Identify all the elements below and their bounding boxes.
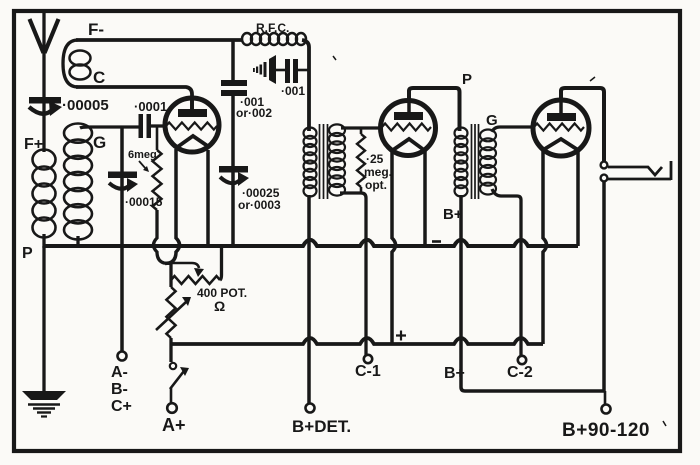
terminal C-1 xyxy=(364,355,372,363)
junction filament return xyxy=(169,264,172,288)
svg-text:C: C xyxy=(93,68,105,87)
wire T2 primary bottom to B+ xyxy=(461,195,604,391)
wire F- tap down to capacitor xyxy=(231,40,235,80)
svg-text:P: P xyxy=(22,245,33,262)
svg-text:Ω: Ω xyxy=(214,298,225,314)
filament leads V1 xyxy=(165,149,180,264)
svg-text:G: G xyxy=(93,133,106,152)
svg-text:·00005: ·00005 xyxy=(62,97,109,114)
jack sleeve line xyxy=(608,178,671,181)
antenna xyxy=(30,12,59,93)
wire bus to ground xyxy=(42,246,45,391)
tube V2 xyxy=(381,101,436,156)
svg-text:·0001: ·0001 xyxy=(134,99,167,114)
tube V3 xyxy=(533,100,589,156)
wire rheostat to switch xyxy=(169,338,172,362)
wire T1 secondary bottom xyxy=(340,193,366,355)
svg-text:C+: C+ xyxy=(111,398,132,415)
terminal B+DET xyxy=(306,404,315,413)
minus mark xyxy=(432,240,441,243)
filament leads V2 xyxy=(392,151,396,344)
lower bus wire (A-) xyxy=(171,338,543,344)
wire V3 plate to jack xyxy=(561,88,604,161)
svg-text:opt.: opt. xyxy=(365,178,387,192)
svg-text:B+DET.: B+DET. xyxy=(292,417,351,436)
speck marks xyxy=(333,56,336,60)
resistor .25 meg xyxy=(360,128,363,134)
filament V2 xyxy=(393,139,424,150)
svg-text:C-2: C-2 xyxy=(507,364,533,381)
svg-text:or·002: or·002 xyxy=(236,106,272,120)
svg-text:A-: A- xyxy=(111,364,128,381)
plate V2 xyxy=(394,112,423,120)
arrow rheostat xyxy=(156,302,186,330)
terminal B+90-120 xyxy=(604,391,607,404)
svg-text:·001: ·001 xyxy=(281,84,305,98)
svg-text:·25: ·25 xyxy=(366,152,384,166)
svg-text:6meg: 6meg xyxy=(128,149,157,161)
wiper arm 400 pot xyxy=(171,263,199,268)
wire T2 secondary top to V3 grid xyxy=(492,127,534,132)
RFC choke xyxy=(242,33,306,45)
wire C coil to tube V1 plate xyxy=(76,87,192,113)
transformer T2 primary xyxy=(455,128,468,197)
svg-text:B+: B+ xyxy=(444,365,465,382)
terminal C-2 xyxy=(518,356,526,364)
svg-text:R.F.C.: R.F.C. xyxy=(256,21,289,35)
svg-text:B-: B- xyxy=(111,381,128,398)
jack terminal 1 xyxy=(601,162,608,169)
svg-text:C-1: C-1 xyxy=(355,363,381,380)
resistor 6meg (grid leak) xyxy=(156,127,159,150)
terminal A+ xyxy=(167,403,177,413)
svg-text:meg.: meg. xyxy=(364,165,392,179)
transformer T1 primary xyxy=(304,128,317,197)
transformer T1 secondary xyxy=(329,124,345,195)
wire antenna-cap-coil xyxy=(42,93,45,152)
tube V1 xyxy=(165,98,219,152)
jack terminal 2 xyxy=(601,175,608,182)
terminal A- xyxy=(118,352,127,361)
wire RFC right down to transformer T1 xyxy=(302,40,309,131)
variable capacitor .00025 or .0003 xyxy=(219,166,249,186)
variable capacitor .00015 xyxy=(108,172,138,193)
wire capacitor to .00025 to bus xyxy=(231,96,235,246)
wire coil F+ to bus xyxy=(42,234,45,248)
capacitor .0001 (grid) xyxy=(139,114,167,138)
grid V2 xyxy=(382,123,431,130)
arrow 6meg xyxy=(139,161,146,169)
plate V3 xyxy=(547,113,576,121)
variable capacitor .00005 xyxy=(29,97,62,116)
capacitor .001 or .002 xyxy=(221,80,247,86)
transformer T1 core xyxy=(320,124,328,199)
filament V1 xyxy=(176,136,209,148)
wire T2 secondary bottom to C-2 xyxy=(492,189,521,356)
wire F- (top) xyxy=(76,38,243,42)
variable capacitor .001 (plate bypass) xyxy=(253,55,309,84)
switch contact xyxy=(170,363,176,369)
wire T1 primary bottom to B+DET xyxy=(307,195,311,403)
transformer T2 core xyxy=(472,124,479,199)
ground xyxy=(22,391,66,417)
grid V1 xyxy=(166,122,217,129)
rheostat xyxy=(166,287,175,338)
wire coil G bottom to bus xyxy=(76,236,79,248)
svg-text:P: P xyxy=(462,71,472,88)
grid V3 xyxy=(534,123,584,130)
top bus wire xyxy=(44,240,578,246)
svg-text:B+90-120: B+90-120 xyxy=(562,420,650,441)
jack bar xyxy=(670,161,673,180)
svg-text:F-: F- xyxy=(88,20,104,39)
jack tip line xyxy=(608,167,662,175)
filament leads V3 xyxy=(543,151,547,344)
svg-text:or·0003: or·0003 xyxy=(238,198,281,212)
filament V3 xyxy=(543,139,578,150)
plate V1 xyxy=(178,109,207,117)
svg-text:A+: A+ xyxy=(162,415,186,435)
wire V2 plate to T2 primary (P) xyxy=(409,88,460,131)
wire jack to B+ xyxy=(602,182,606,391)
wire grid branch down to A- terminal xyxy=(120,127,124,351)
coil C (tickler) xyxy=(63,40,78,87)
coil G (secondary) xyxy=(64,124,92,240)
wire coil G top to grid capacitor xyxy=(80,127,139,128)
coil F+ (antenna primary) xyxy=(33,150,56,238)
switch blade xyxy=(170,371,184,389)
potentiometer 400 ohm xyxy=(171,276,220,284)
transformer T2 secondary xyxy=(480,130,496,195)
wire T1 secondary top to V2 grid xyxy=(341,126,382,129)
plus mark xyxy=(396,331,406,341)
svg-text:F+: F+ xyxy=(24,136,43,153)
